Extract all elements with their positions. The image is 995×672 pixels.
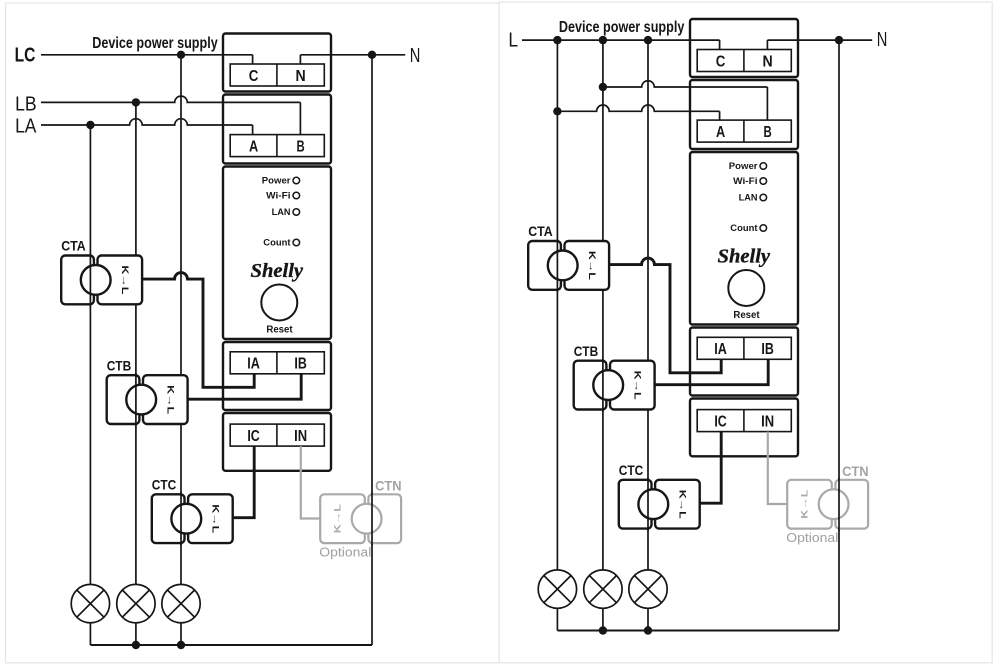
svg-text:Optional: Optional — [786, 530, 838, 545]
svg-text:IA: IA — [247, 356, 260, 373]
svg-text:CTC: CTC — [619, 462, 644, 478]
svg-text:CTB: CTB — [107, 358, 132, 374]
svg-text:B: B — [764, 124, 772, 141]
svg-text:IA: IA — [714, 341, 727, 358]
svg-text:Power: Power — [729, 161, 758, 171]
svg-text:B: B — [297, 138, 305, 155]
svg-text:Wi-Fi: Wi-Fi — [733, 176, 757, 186]
svg-text:LAN: LAN — [272, 207, 291, 217]
svg-text:C: C — [716, 53, 726, 70]
svg-text:Device power supply: Device power supply — [92, 35, 218, 52]
svg-text:IB: IB — [294, 356, 306, 373]
svg-text:C: C — [249, 68, 259, 85]
svg-text:Shelly: Shelly — [718, 247, 771, 268]
svg-text:IN: IN — [761, 413, 774, 430]
svg-text:N: N — [763, 53, 773, 70]
svg-text:K→L: K→L — [800, 489, 811, 518]
svg-text:K→L: K→L — [164, 385, 175, 414]
svg-text:K→L: K→L — [209, 504, 220, 533]
svg-text:LAN: LAN — [739, 193, 758, 203]
svg-text:K→L: K→L — [631, 371, 642, 400]
svg-text:LB: LB — [15, 92, 36, 115]
svg-text:N: N — [410, 44, 421, 67]
svg-text:K→L: K→L — [333, 504, 344, 533]
svg-text:A: A — [249, 138, 258, 155]
svg-text:LC: LC — [15, 44, 36, 67]
svg-text:Wi-Fi: Wi-Fi — [266, 191, 290, 201]
svg-text:CTA: CTA — [528, 223, 553, 239]
svg-text:CTA: CTA — [61, 238, 85, 254]
svg-text:A: A — [716, 124, 725, 141]
svg-text:Shelly: Shelly — [251, 261, 304, 282]
svg-text:CTN: CTN — [842, 463, 869, 479]
svg-text:Reset: Reset — [266, 323, 293, 335]
svg-text:IC: IC — [714, 413, 726, 430]
svg-text:K→L: K→L — [586, 251, 597, 280]
svg-text:N: N — [877, 28, 888, 51]
svg-text:Count: Count — [730, 223, 757, 233]
svg-text:Count: Count — [263, 238, 290, 248]
svg-text:N: N — [296, 68, 306, 85]
svg-text:K→L: K→L — [676, 490, 687, 519]
svg-text:L: L — [508, 28, 518, 51]
svg-text:Device power supply: Device power supply — [559, 19, 685, 36]
svg-text:Power: Power — [262, 176, 291, 186]
svg-text:IB: IB — [761, 341, 773, 358]
svg-text:Reset: Reset — [733, 309, 760, 321]
svg-text:LA: LA — [15, 114, 37, 137]
svg-text:Optional: Optional — [319, 544, 371, 559]
svg-text:K→L: K→L — [119, 265, 130, 294]
svg-text:IN: IN — [294, 428, 307, 445]
svg-text:CTB: CTB — [574, 343, 599, 359]
svg-text:CTN: CTN — [375, 477, 402, 493]
svg-text:CTC: CTC — [152, 477, 177, 493]
svg-text:IC: IC — [247, 428, 259, 445]
